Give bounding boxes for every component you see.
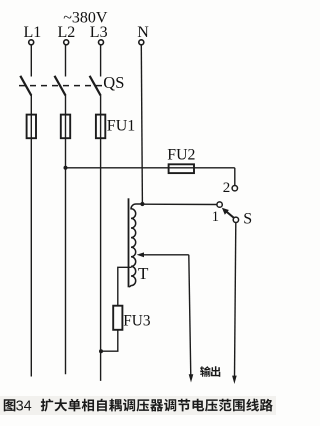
wire L2 fuse to bottom [65,116,67,375]
caption 图34 [4,399,16,411]
svg-text:2: 2 [223,180,231,196]
output arrowhead right [232,376,237,384]
wire junction to contact 1 [142,203,217,205]
caption band [0,396,276,415]
wire FU3 to L3 junction [101,330,118,352]
svg-text:FU1: FU1 [107,117,135,134]
terminal circle N [139,40,144,45]
junction dot L3/FU3 [99,349,103,353]
transformer T core bar [128,198,130,287]
terminal circle L2 [64,40,69,45]
wire L3 terminal to switch [100,45,102,77]
svg-text:FU3: FU3 [123,313,151,330]
fuse FU1 pole L1 [27,115,36,139]
switch QS blade pole L3 [90,76,101,96]
fuse FU1 pole L2 [61,115,70,139]
wire S pivot down to output arrow [235,223,236,378]
fuse FU1 pole L3 [96,115,105,139]
wire wiper corner down to output arrow [189,255,191,377]
contact circle 2 [232,186,237,191]
wire L2 switch to fuse FU1 [65,95,67,116]
svg-text:1: 1 [212,209,219,225]
wire L1 terminal to switch [30,45,32,77]
wire L3 fuse to bottom [100,116,102,381]
wire L2 junction to FU2 to corner [66,167,235,169]
wire L1 fuse to bottom [30,116,32,377]
transformer T winding [129,204,142,287]
caption title text [41,399,273,412]
switch S pivot circle [233,217,238,222]
svg-text:FU2: FU2 [167,147,195,164]
switch S blade with arrowhead toward contact 1 [222,208,234,218]
fuse FU3 [113,306,122,330]
terminal circle L1 [29,40,34,45]
wire L1 switch to fuse FU1 [30,95,32,116]
contact circle 1 [217,202,222,207]
wire L3 switch to fuse FU1 [100,95,102,116]
switch QS blade pole L2 [55,76,66,96]
svg-text:34: 34 [16,398,32,414]
svg-text:T: T [138,264,149,283]
svg-text:QS: QS [103,73,124,92]
junction dot N / winding top / contact 1 [140,202,144,206]
svg-text:S: S [243,211,252,228]
wire L2 terminal to switch [65,45,67,77]
output arrowhead left [189,374,194,382]
wiper arrowhead [137,252,144,257]
wiper wire from winding to corner [143,254,189,256]
terminal circle L3 [99,40,104,45]
fuse FU2 [169,164,194,173]
svg-text:L2: L2 [58,24,76,41]
junction dot L2/FU2 branch [64,166,68,170]
svg-text:L1: L1 [24,24,42,41]
wire corner down to contact 2 [234,168,236,186]
switch QS linkage dashed line [19,85,104,87]
svg-text:N: N [137,24,149,41]
tap wire winding to FU3 [118,267,132,305]
switch QS blade pole L1 [20,76,31,96]
label 输出 (output) [200,366,220,377]
svg-text:L3: L3 [90,24,108,41]
wire N terminal down to winding junction [141,45,142,204]
